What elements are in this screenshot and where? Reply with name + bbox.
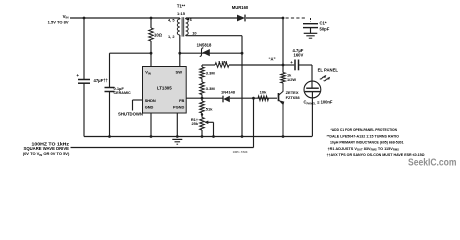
svg-text:SHUTDOWN: SHUTDOWN	[118, 112, 143, 117]
svg-text:4, 5: 4, 5	[168, 17, 175, 22]
svg-text:SW: SW	[176, 70, 183, 75]
svg-text:VIN: VIN	[145, 70, 151, 76]
svg-text:10Ω: 10Ω	[154, 33, 163, 38]
svg-text:FB: FB	[179, 98, 184, 103]
svg-text:+: +	[290, 60, 293, 65]
svg-text:T1**: T1**	[177, 4, 186, 9]
svg-text:1.5V TO 8V: 1.5V TO 8V	[48, 19, 69, 24]
svg-text:1:15: 1:15	[177, 11, 186, 16]
svg-text:10: 10	[192, 31, 196, 36]
svg-text:51k: 51k	[206, 106, 213, 111]
svg-text:SHDN: SHDN	[145, 98, 156, 103]
svg-text:+: +	[76, 73, 79, 78]
svg-text:3.3M: 3.3M	[218, 59, 228, 64]
svg-text:1N4148: 1N4148	[221, 90, 236, 95]
svg-text:10k: 10k	[260, 90, 267, 95]
svg-text:FZT658: FZT658	[286, 95, 301, 100]
svg-text:C1*: C1*	[320, 21, 327, 26]
svg-text:(0V TO VIN OR 0V TO 5V): (0V TO VIN OR 0V TO 5V)	[23, 151, 70, 157]
svg-text:1, 2: 1, 2	[168, 34, 175, 39]
svg-text:EL PANEL: EL PANEL	[318, 68, 339, 73]
svg-text:1N5818: 1N5818	[197, 42, 212, 47]
svg-text:GND: GND	[145, 105, 154, 110]
svg-text:*ADD C1 FOR OPEN-PANEL PROTECT: *ADD C1 FOR OPEN-PANEL PROTECTION	[331, 127, 398, 132]
svg-text:3.3M: 3.3M	[206, 70, 216, 75]
svg-text:LT1305: LT1305	[157, 85, 172, 90]
svg-text:3.3M: 3.3M	[206, 86, 216, 91]
svg-text:25k: 25k	[192, 121, 199, 126]
svg-text:PGND: PGND	[173, 105, 184, 110]
svg-text:††AVX TPS OR SANYO OS-CON MUST: ††AVX TPS OR SANYO OS-CON MUST HAVE ESR …	[327, 152, 426, 157]
svg-text:CERAMIC: CERAMIC	[114, 91, 132, 95]
svg-text:10µH PRIMARY INDUCTANCE (605): 10µH PRIMARY INDUCTANCE (605) 668-5301	[330, 140, 404, 145]
svg-text:**DALE LPE5047-A132 1:15 TURNS: **DALE LPE5047-A132 1:15 TURNS RATIO	[327, 133, 400, 138]
svg-text:“A”: “A”	[268, 56, 275, 61]
svg-text:MUR160: MUR160	[232, 5, 249, 10]
svg-text:1305 • TA03: 1305 • TA03	[233, 150, 248, 154]
svg-text:1/2W: 1/2W	[287, 77, 296, 82]
svg-text:47µF††: 47µF††	[94, 78, 109, 83]
svg-text:50pF: 50pF	[320, 27, 330, 32]
svg-text:160V: 160V	[294, 53, 304, 58]
svg-text:SeekIC.com: SeekIC.com	[408, 157, 457, 168]
